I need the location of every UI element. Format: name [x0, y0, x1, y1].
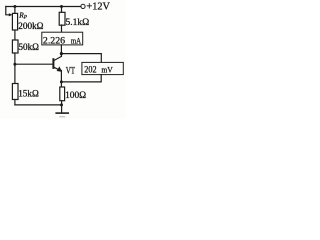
svg-text:2.226: 2.226 [43, 35, 65, 46]
svg-text:15kΩ: 15kΩ [18, 88, 39, 98]
wire base [15, 63, 53, 65]
terminal +12V circle [81, 4, 85, 8]
svg-text:+12V: +12V [86, 2, 110, 13]
node top-left junction [13, 5, 16, 8]
transistor VT base bar [52, 59, 54, 68]
svg-text:202: 202 [84, 64, 96, 75]
meter box mA [42, 32, 83, 45]
svg-text:mV: mV [101, 64, 113, 74]
node emitter-rail junction [60, 103, 63, 106]
wire 15k bottom lead [14, 100, 16, 105]
potentiometer RP body [12, 13, 17, 30]
wire collector to mV meter top [61, 54, 101, 63]
potentiometer wiper arrow [9, 13, 13, 16]
wire RP top lead [14, 7, 16, 14]
transistor VT collector diagonal [54, 56, 62, 60]
svg-text:50kΩ: 50kΩ [18, 42, 39, 52]
svg-text:100Ω: 100Ω [65, 91, 86, 101]
resistor R 15k body [12, 84, 18, 100]
wire 50k to 15k vertical [14, 53, 16, 84]
node top rail 5.1k junction [60, 5, 63, 8]
resistor R 50k body [12, 40, 18, 53]
wire emitter vertical [60, 71, 62, 88]
wire RP to 50k lead [14, 30, 16, 40]
wire wiper riser [6, 7, 10, 15]
svg-text:mA: mA [71, 36, 81, 45]
wire mA meter to collector [60, 45, 62, 57]
transistor VT emitter diagonal [54, 67, 62, 71]
wire top rail [6, 6, 81, 8]
wire bottom rail [15, 104, 62, 106]
svg-text:5.1kΩ: 5.1kΩ [66, 18, 90, 28]
svg-text:200kΩ: 200kΩ [18, 21, 43, 31]
meter box mV [82, 62, 123, 74]
node emitter junction [60, 80, 63, 83]
svg-text:VT: VT [66, 65, 75, 76]
wire 100 bottom lead to ground [61, 101, 63, 113]
resistor 100 body [60, 87, 65, 101]
node collector junction [60, 52, 63, 55]
wire mV meter bottom to emitter [61, 75, 101, 82]
node base tee [13, 63, 16, 66]
wire 5.1k top lead [61, 7, 63, 13]
svg-text:RP: RP [18, 10, 28, 20]
ground bar 2 [60, 116, 65, 118]
resistor 5.1k body [59, 12, 65, 25]
transistor VT emitter arrow [57, 66, 63, 72]
ground bar 1 [56, 112, 68, 114]
wire 5.1k to mA meter [61, 25, 63, 32]
